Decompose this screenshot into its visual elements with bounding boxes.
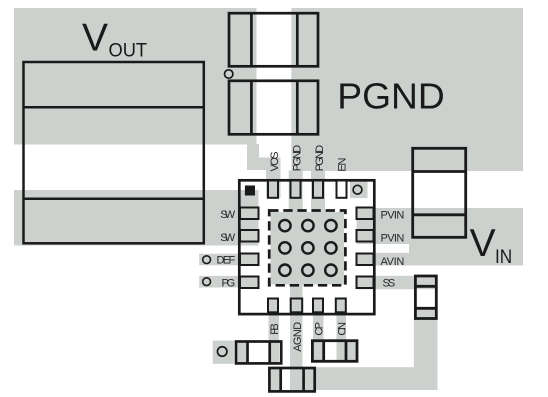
capacitor C-AGND right section fill (305, 369, 314, 391)
node EN pad patch (350, 181, 368, 198)
node PG via circle (203, 278, 211, 286)
svg-text:PGND: PGND (337, 75, 445, 116)
capacitor C-SS bottom section fill (417, 308, 436, 318)
node PVIN copper pour (357, 208, 524, 244)
svg-text:CP: CP (314, 322, 326, 336)
svg-text:PG: PG (222, 277, 236, 289)
op-amp U1 IC body outline (239, 180, 374, 314)
svg-text:AVIN: AVIN (381, 256, 405, 268)
capacitor C-IN outline (413, 148, 466, 237)
wire AGND vertical band (414, 318, 438, 390)
thermal pad dashed outline (269, 211, 345, 286)
pin pads top: VOS PGND PGND EN (268, 181, 347, 198)
svg-text:CN: CN (337, 322, 349, 336)
svg-text:IN: IN (495, 246, 512, 268)
capacitor C-CPCN outline (312, 341, 357, 362)
wire PVIN-AVIN connector (409, 243, 523, 254)
wire VOS trace step3 (266, 158, 281, 199)
pin labels bottom (rotated) (269, 322, 349, 352)
svg-text:PGND: PGND (292, 145, 304, 172)
wire CN stripe (337, 314, 347, 361)
pin labels right (381, 210, 405, 290)
node FB via circle (217, 347, 227, 357)
wire PGND stripe 2 (311, 171, 325, 213)
svg-text:V: V (82, 16, 108, 59)
wire CP stripe (313, 314, 324, 361)
wire FB stripe (269, 314, 280, 363)
wire AVIN band (357, 253, 524, 266)
inductor L1 outline (24, 62, 204, 243)
svg-text:DEF: DEF (217, 255, 236, 267)
pin 1 marker (245, 186, 255, 196)
pin pads left: SW SW DEF PG (240, 208, 259, 289)
wire AGND stripe (290, 284, 303, 393)
pin labels left (217, 209, 236, 289)
wire SW band (14, 190, 259, 246)
node FB via pad square (213, 341, 234, 364)
capacitor C-AGND left section fill (271, 369, 280, 391)
pin pads bottom: FB AGND CP CN (268, 299, 346, 313)
svg-text:SS: SS (383, 277, 396, 289)
svg-text:FB: FB (269, 323, 281, 335)
svg-text:VOS: VOS (269, 152, 281, 172)
capacitor C-OUT1 outline (229, 13, 318, 66)
resistor R-FB left section fill (237, 343, 246, 363)
thermal pad fill (271, 212, 345, 285)
node PGND copper pour (291, 8, 523, 171)
wire VOS trace step2 (258, 158, 280, 171)
capacitor C-SS outline (415, 276, 436, 319)
wire AGND horizontal band (315, 367, 438, 390)
svg-text:PVIN: PVIN (381, 233, 405, 245)
pin pads right: PVIN PVIN AVIN SS (357, 208, 374, 289)
via circle top-left (225, 70, 233, 78)
capacitor C-OUT2 outline (229, 81, 318, 135)
svg-text:SW: SW (220, 232, 236, 244)
svg-text:OUT: OUT (109, 39, 148, 61)
svg-text:SW: SW (220, 209, 236, 221)
wire PGND stripe 1 (289, 171, 303, 213)
node EN via circle (353, 185, 362, 194)
wire VOS trace step1 (247, 144, 259, 170)
svg-text:V: V (470, 222, 496, 265)
capacitor C-CPCN right section fill (347, 342, 355, 360)
node VOUT copper pour (14, 8, 257, 145)
svg-text:EN: EN (337, 158, 349, 172)
wire PG band (199, 276, 241, 288)
thermal vias 3x3 (279, 220, 336, 276)
wire SS band (357, 276, 437, 290)
svg-text:AGND: AGND (292, 322, 304, 352)
wire DEF band (199, 254, 241, 266)
pin labels top (rotated) (269, 145, 349, 172)
node DEF via circle (203, 256, 211, 264)
capacitor C-AGND outline (269, 368, 314, 391)
svg-text:PVIN: PVIN (381, 210, 405, 222)
svg-text:PGND: PGND (314, 145, 326, 172)
resistor R-FB outline (236, 342, 281, 364)
